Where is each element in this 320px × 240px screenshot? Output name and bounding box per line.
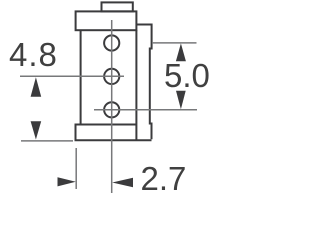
pin 1 circle <box>104 35 119 50</box>
2.7 left extension line <box>75 148 77 189</box>
svg-text:4.8: 4.8 <box>9 36 58 73</box>
vertical center line <box>111 20 113 193</box>
top flange / cover <box>76 11 137 30</box>
4.8 up arrow <box>31 77 42 97</box>
seating plane extension line (4.8 bottom) <box>21 140 73 142</box>
pin 3 circle <box>104 102 119 117</box>
body left edge <box>80 30 82 124</box>
bottom flange (standoff base) <box>76 125 152 141</box>
pin 3 center line (5.0 bottom extension) <box>94 109 197 111</box>
2.7 right arrow <box>58 177 76 186</box>
5.0 up arrow <box>176 43 186 61</box>
body right edge <box>135 30 137 140</box>
pin 2 circle <box>104 69 119 84</box>
svg-text:2.7: 2.7 <box>141 160 187 197</box>
side protrusion outline <box>136 25 151 140</box>
svg-text:5.0: 5.0 <box>164 57 210 94</box>
pin 2 center line (4.8 top extension) <box>20 75 124 77</box>
pin 1 extension line (5.0 top) <box>152 42 197 44</box>
2.7 left arrow <box>112 178 133 187</box>
4.8 down arrow <box>31 121 42 139</box>
adjustment screw tab (top) <box>102 2 133 11</box>
5.0 down arrow <box>176 91 186 109</box>
